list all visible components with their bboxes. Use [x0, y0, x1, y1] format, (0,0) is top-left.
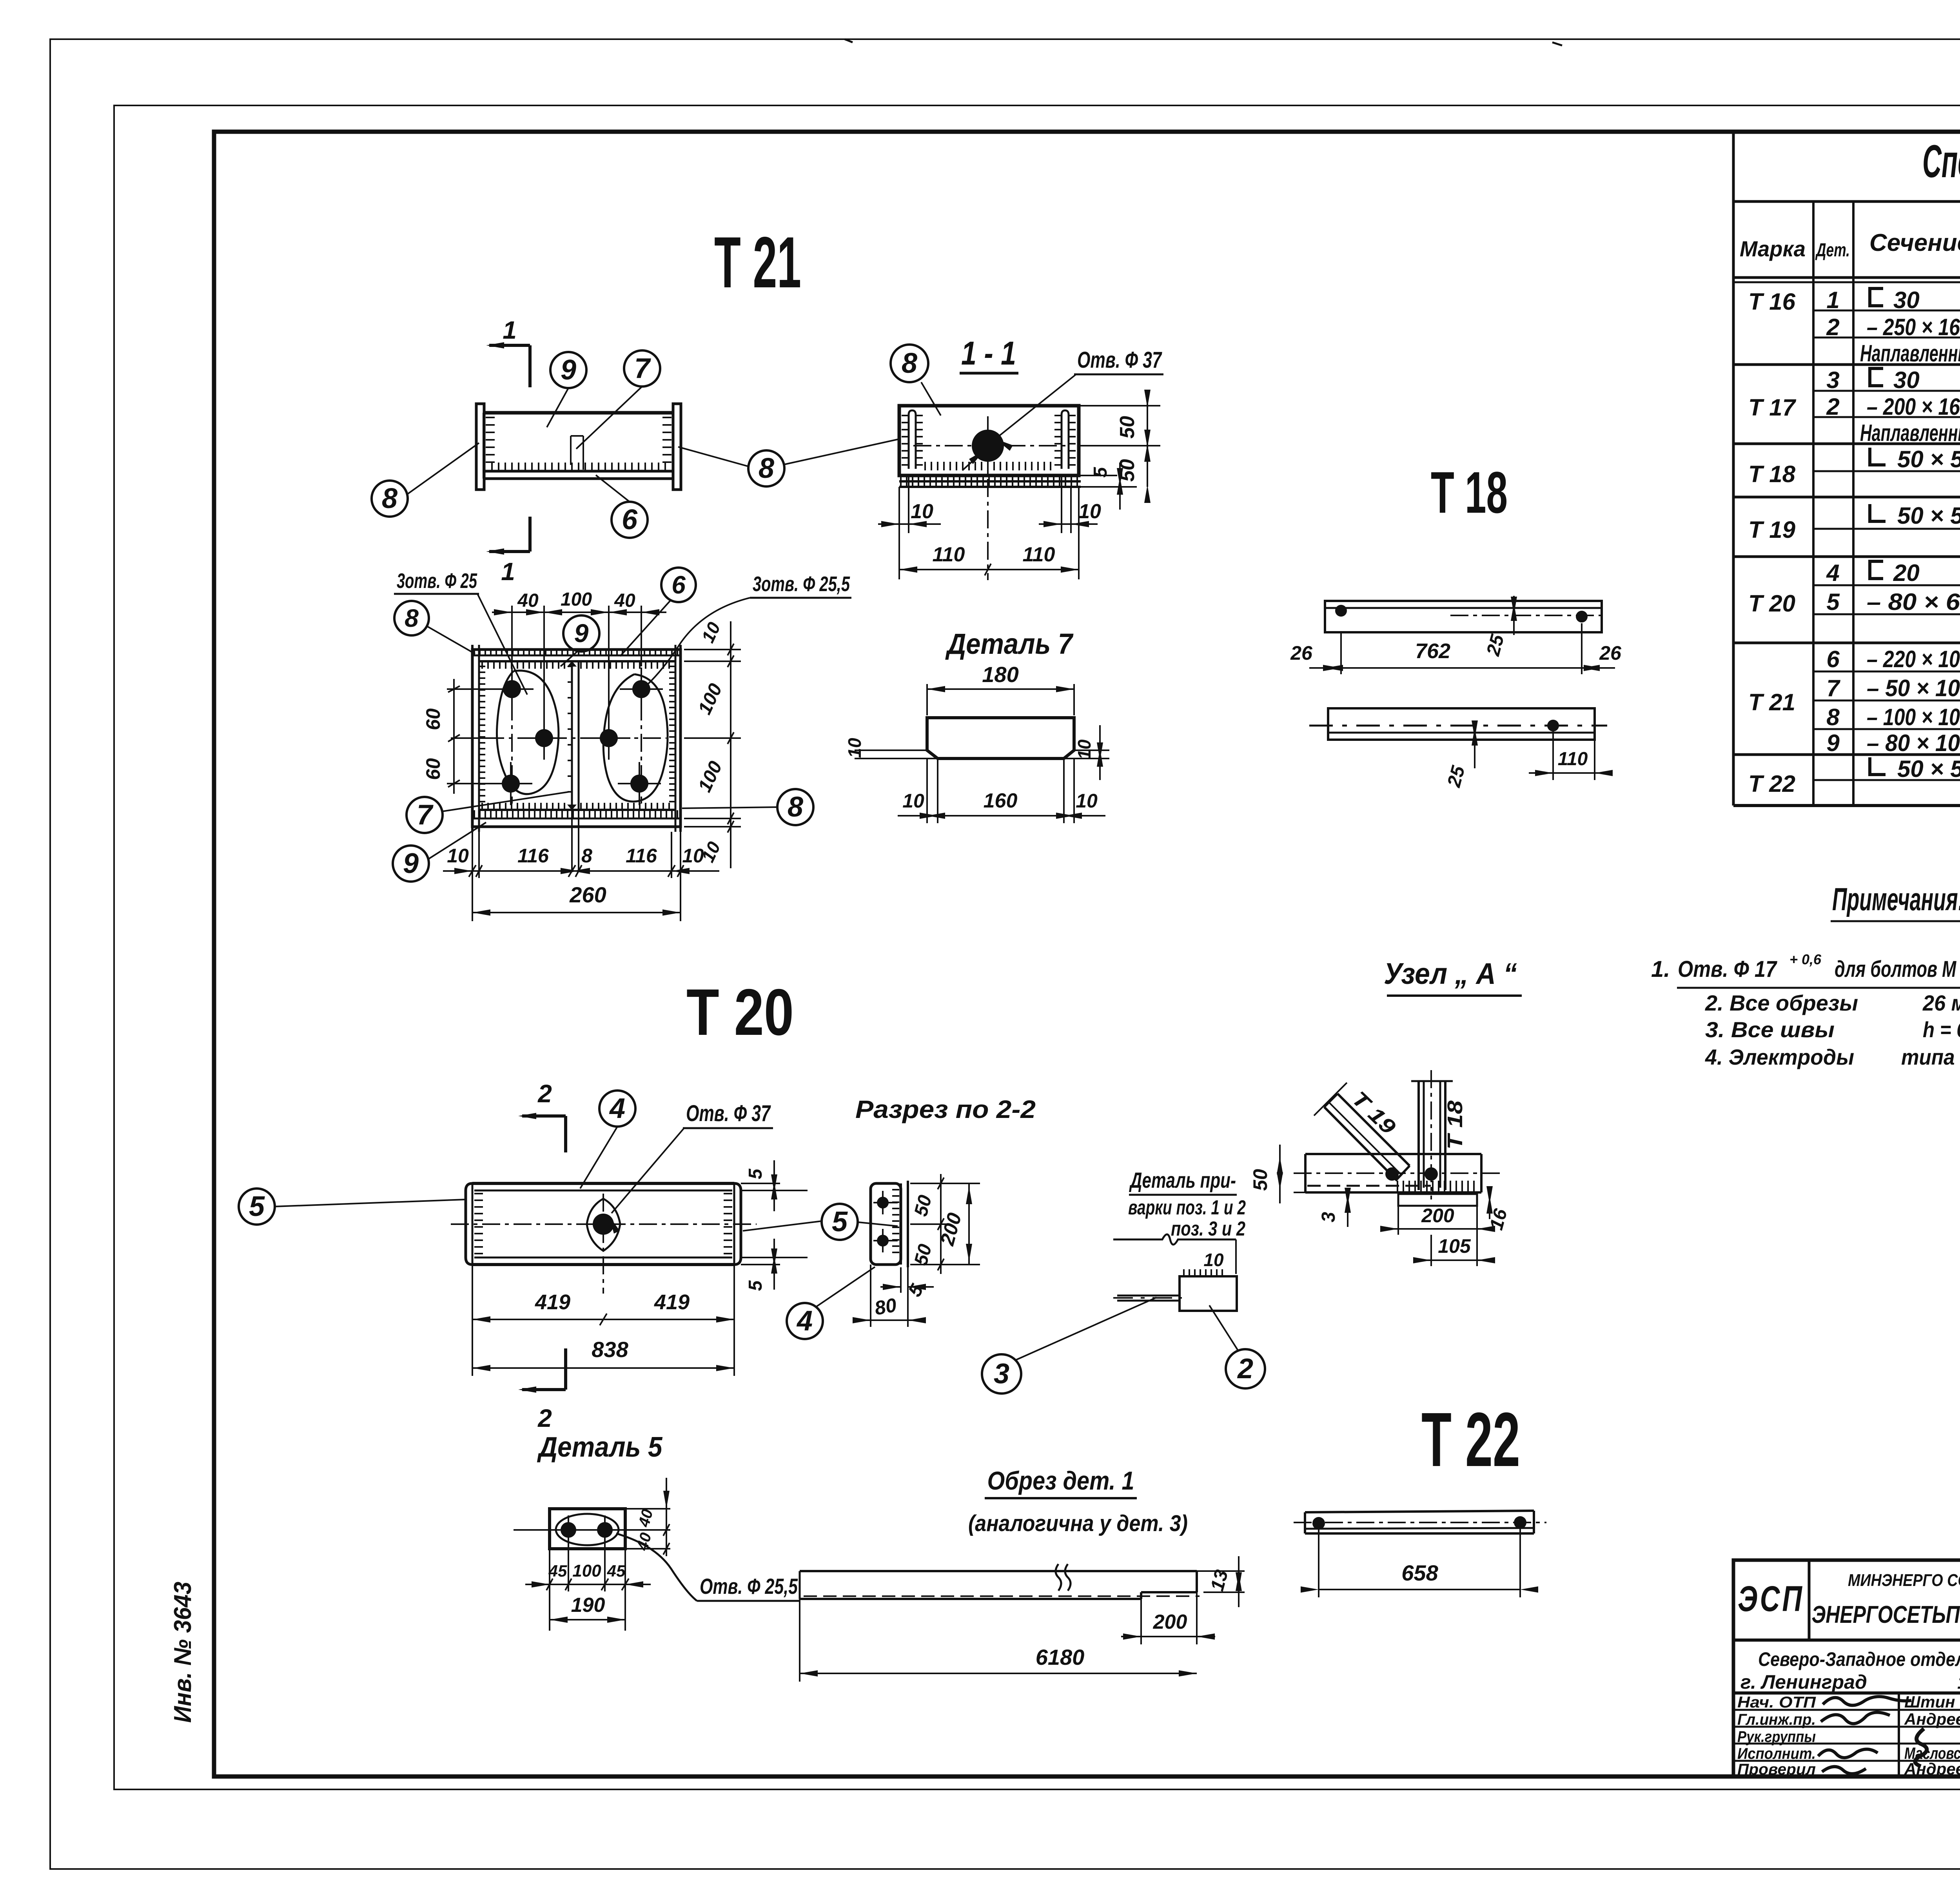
svg-text:– 250 × 16: – 250 × 16 [1867, 314, 1960, 340]
svg-text:110: 110 [933, 543, 965, 566]
scan speck top [845, 39, 853, 42]
T18 bar 1 [1325, 601, 1602, 632]
section mark 1 top [528, 345, 532, 387]
T20 section mark 2 top [564, 1116, 567, 1152]
svg-text:26: 26 [1290, 642, 1313, 664]
svg-text:160: 160 [984, 789, 1018, 812]
svg-text:– 220 × 10: – 220 × 10 [1867, 646, 1960, 672]
razrez bolts [877, 1197, 889, 1208]
uzel A weld hatch [1397, 1181, 1474, 1192]
signatures [1823, 1697, 1911, 1705]
svg-text:Деталь при-: Деталь при- [1129, 1168, 1236, 1192]
svg-text:45: 45 [548, 1562, 567, 1580]
svg-text:8: 8 [382, 483, 397, 514]
svg-text:2: 2 [1237, 1353, 1253, 1384]
svg-text:– 50 × 10: – 50 × 10 [1867, 675, 1960, 701]
razrez plate det5 [900, 1183, 902, 1265]
svg-text:200: 200 [1153, 1611, 1187, 1633]
svg-text:116: 116 [626, 845, 657, 867]
svg-text:Разрез по 2-2: Разрез по 2-2 [855, 1095, 1036, 1123]
hole F37 [972, 430, 1004, 462]
svg-text:9: 9 [1826, 730, 1840, 756]
callout 8 plan right [682, 807, 777, 808]
svg-text:Марка: Марка [1740, 236, 1806, 261]
svg-text:5: 5 [745, 1280, 766, 1291]
svg-text:Дет.: Дет. [1815, 240, 1850, 261]
T21 side view body [484, 411, 673, 415]
svg-text:Отв. Ф 37: Отв. Ф 37 [686, 1101, 771, 1126]
svg-text:8: 8 [759, 453, 774, 484]
callout 8 section [921, 382, 941, 416]
svg-text:762: 762 [1415, 639, 1450, 663]
svg-text:1: 1 [501, 557, 515, 586]
callout 9 plan top [561, 651, 578, 666]
svg-text:для болтов М 16 × 60: для болтов М 16 × 60 [1835, 956, 1960, 982]
svg-text:Штин: Штин [1904, 1693, 1955, 1711]
plan top dims 40 100 40 [511, 606, 513, 666]
svg-text:50: 50 [1116, 416, 1139, 439]
svg-text:Примечания:: Примечания: [1832, 882, 1960, 917]
svg-text:105: 105 [1438, 1235, 1471, 1257]
svg-text:– 80 × 6: – 80 × 6 [1867, 589, 1960, 615]
svg-text:5: 5 [832, 1206, 848, 1238]
svg-text:8: 8 [902, 348, 917, 379]
plan view outer [472, 650, 681, 827]
T18 bar 2 dims [1474, 721, 1475, 768]
svg-text:50 × 5: 50 × 5 [1897, 446, 1960, 472]
svg-text:Нач. ОТП: Нач. ОТП [1737, 1694, 1816, 1711]
callout 6 bottom [596, 475, 630, 502]
svg-text:9: 9 [403, 848, 419, 879]
svg-text:Спецификация: Спецификация [1922, 136, 1960, 187]
svg-text:8: 8 [405, 604, 419, 632]
detail 7 part [927, 718, 1074, 758]
svg-text:116: 116 [517, 845, 549, 867]
svg-text:110: 110 [1558, 749, 1588, 769]
T20 body [472, 1182, 734, 1185]
plan view top plate [472, 655, 681, 657]
svg-text:Гл.инж.пр.: Гл.инж.пр. [1737, 1711, 1816, 1728]
svg-text:типа Э 42 А: типа Э 42 А [1901, 1045, 1960, 1069]
T22 dims 658 [1318, 1529, 1319, 1597]
svg-text:Т 20: Т 20 [1748, 590, 1795, 617]
uzel A dims [1279, 1145, 1281, 1203]
T21 side view left end plate [476, 404, 484, 490]
svg-text:Отв. Ф 37: Отв. Ф 37 [1077, 347, 1162, 373]
detail 5 plate [550, 1509, 625, 1549]
obrez det1 dim 200 [1140, 1599, 1142, 1644]
svg-text:4: 4 [796, 1305, 813, 1337]
T18 bar 1 dims [1340, 632, 1342, 674]
svg-text:Т 20: Т 20 [686, 975, 794, 1049]
svg-text:50 × 5: 50 × 5 [1897, 756, 1960, 782]
svg-text:2: 2 [537, 1404, 552, 1432]
svg-text:6180: 6180 [1036, 1645, 1085, 1669]
section 1-1 box [899, 406, 1079, 475]
detail privarki callout 3 [1015, 1297, 1156, 1360]
spec table grid [1733, 200, 1960, 203]
svg-text:658: 658 [1401, 1560, 1438, 1585]
plan view bottom plate [479, 809, 675, 811]
svg-text:4: 4 [609, 1093, 625, 1124]
dims 110 110 [898, 533, 900, 579]
svg-text:2: 2 [1826, 394, 1839, 420]
svg-text:МИНЭНЕРГО СССР: МИНЭНЕРГО СССР [1848, 1571, 1960, 1590]
dims 50 50 5 right [1079, 405, 1160, 406]
svg-text:3: 3 [1826, 367, 1839, 393]
plan bolts [503, 680, 521, 698]
svg-text:– 100 × 10: – 100 × 10 [1867, 704, 1960, 730]
svg-text:Отв. Ф 25,5: Отв. Ф 25,5 [700, 1574, 798, 1599]
svg-text:Т 21: Т 21 [714, 222, 801, 303]
svg-text:ЭНЕРГОСЕТЬПРОЕКТ: ЭНЕРГОСЕТЬПРОЕКТ [1812, 1601, 1960, 1628]
svg-text:Сечение: Сечение [1869, 229, 1960, 256]
svg-text:Т 21: Т 21 [1748, 689, 1795, 715]
svg-text:10: 10 [911, 500, 933, 523]
svg-text:Деталь 5: Деталь 5 [537, 1432, 662, 1463]
T20 dims 5 top/bottom right [741, 1183, 780, 1184]
svg-text:Наплавленный: Наплавленный [1860, 420, 1960, 446]
svg-text:30: 30 [1893, 287, 1920, 313]
svg-text:419: 419 [654, 1290, 690, 1314]
svg-text:10: 10 [1074, 739, 1094, 760]
plan centerlines [486, 737, 666, 739]
svg-text:100: 100 [561, 589, 592, 610]
svg-text:2: 2 [1826, 314, 1839, 340]
plan bottom dims 10 116 8 116 10 [478, 832, 480, 878]
svg-text:260: 260 [569, 882, 606, 907]
uzel A vertical T18 [1417, 1081, 1420, 1190]
callout 9 plan bottom [428, 822, 486, 859]
svg-text:1: 1 [503, 316, 517, 344]
svg-text:Андреева: Андреева [1904, 1760, 1960, 1778]
svg-text:1: 1 [1826, 287, 1839, 313]
svg-text:– 200 × 16: – 200 × 16 [1867, 394, 1960, 420]
svg-text:Т 18: Т 18 [1443, 1101, 1467, 1150]
svg-text:3. Все швы: 3. Все швы [1705, 1017, 1835, 1042]
T20 section mark 2 bottom [564, 1348, 567, 1390]
svg-text:h = 6 мм: h = 6 мм [1923, 1017, 1960, 1042]
T20 callout 4 [580, 1127, 617, 1189]
svg-text:60: 60 [422, 758, 444, 780]
T20 callout 5 right shared [743, 1221, 822, 1231]
plan left dims 60 60 [447, 688, 502, 690]
detail privarki strip [1117, 1295, 1180, 1297]
svg-text:9: 9 [561, 354, 576, 386]
section 1-1 bottom plate [899, 480, 1081, 483]
svg-text:10: 10 [447, 845, 469, 867]
detail 7 dim 180 [926, 684, 928, 715]
svg-text:Северо-Западное отделение: Северо-Западное отделение [1758, 1648, 1960, 1670]
section mark 1 bottom [528, 517, 532, 552]
svg-text:– 80 × 10: – 80 × 10 [1867, 730, 1960, 756]
detail 5 dims 40 40 [625, 1508, 670, 1510]
svg-text:ЭСП: ЭСП [1738, 1579, 1804, 1619]
razrez dims 50 50 200 [910, 1183, 980, 1184]
T21 side view right end plate [673, 404, 681, 490]
detail 5 oval [556, 1514, 619, 1545]
svg-text:26 мм: 26 мм [1922, 991, 1960, 1015]
T20 right end cap [734, 1183, 741, 1265]
svg-text:Обрез дет. 1: Обрез дет. 1 [987, 1466, 1134, 1495]
svg-text:80: 80 [873, 1294, 898, 1319]
svg-text:3отв. Ф 25,5: 3отв. Ф 25,5 [753, 572, 850, 596]
svg-text:7: 7 [417, 799, 434, 831]
razrez dim 5 [900, 1267, 902, 1293]
svg-text:40: 40 [517, 590, 539, 611]
detail 7 side ext lines [855, 749, 927, 751]
obrez det1 dim 13 [1197, 1570, 1245, 1572]
uzel A diagonal T19 [1324, 1107, 1396, 1180]
svg-text:варки поз. 1 и 2: варки поз. 1 и 2 [1128, 1196, 1246, 1219]
callout 8 left [408, 443, 479, 494]
callout 9 side view [547, 388, 568, 427]
svg-text:838: 838 [592, 1337, 628, 1362]
svg-text:9: 9 [574, 619, 589, 648]
svg-text:1973 г.: 1973 г. [1957, 1672, 1960, 1693]
svg-text:Узел „ А “: Узел „ А “ [1384, 957, 1517, 991]
uzel A bottom plate [1398, 1194, 1477, 1206]
T20 left end cap [466, 1183, 472, 1265]
svg-text:Т 17: Т 17 [1748, 394, 1797, 421]
svg-text:6: 6 [671, 571, 686, 599]
plan view middle rib [571, 661, 573, 810]
callout 6 plan [620, 600, 671, 656]
svg-text:2: 2 [537, 1080, 552, 1108]
section 1-1 welds [902, 416, 908, 465]
svg-text:10: 10 [1076, 790, 1098, 812]
svg-text:Рук.группы: Рук.группы [1737, 1728, 1816, 1746]
svg-text:Т 22: Т 22 [1421, 1397, 1520, 1482]
svg-text:10: 10 [1078, 500, 1101, 523]
svg-text:7: 7 [634, 353, 651, 384]
svg-text:(аналогична у дет. 3): (аналогична у дет. 3) [968, 1511, 1188, 1536]
section 1-1 right slot [1062, 410, 1069, 469]
svg-text:4: 4 [1826, 560, 1839, 586]
svg-text:4. Электроды: 4. Электроды [1705, 1045, 1854, 1069]
svg-text:60: 60 [422, 708, 444, 730]
T22 bar [1305, 1511, 1534, 1512]
svg-text:7: 7 [1826, 675, 1840, 701]
plan hole group right egg [603, 674, 668, 802]
svg-text:поз. 3 и 2: поз. 3 и 2 [1171, 1218, 1245, 1240]
T21 side view welds [486, 417, 495, 462]
callout 8 middle shared [678, 447, 749, 466]
svg-text:Наплавленный: Наплавленный [1860, 340, 1960, 367]
obrez det1 bar [800, 1570, 1197, 1572]
svg-text:26: 26 [1599, 642, 1622, 664]
svg-text:5: 5 [745, 1168, 766, 1179]
svg-text:180: 180 [982, 662, 1018, 687]
detail 5 dims 45 100 45 190 [549, 1549, 550, 1631]
plan dim 260 [472, 832, 473, 921]
svg-text:200: 200 [1421, 1205, 1454, 1227]
svg-text:Проверил: Проверил [1737, 1761, 1816, 1778]
svg-text:Т 18: Т 18 [1431, 459, 1508, 525]
callout 8 plan top-left [427, 626, 475, 654]
detail privarki dim bracket [1113, 1234, 1236, 1245]
svg-text:5: 5 [249, 1191, 265, 1222]
obrez det1 break [1056, 1564, 1071, 1591]
T20 callout 5 left [274, 1199, 466, 1207]
svg-text:Т 18: Т 18 [1748, 461, 1796, 487]
plan view end plates [471, 645, 474, 832]
section 1-1 left slot [909, 410, 916, 469]
svg-text:Т 19: Т 19 [1748, 517, 1796, 543]
svg-text:+ 0,6: + 0,6 [1789, 951, 1822, 967]
svg-text:10: 10 [1203, 1250, 1224, 1270]
svg-text:190: 190 [571, 1594, 605, 1617]
callout 7 side view [576, 386, 642, 449]
svg-text:5: 5 [1090, 466, 1111, 477]
svg-text:Отв. Ф 17: Отв. Ф 17 [1678, 956, 1777, 982]
svg-text:6: 6 [622, 504, 638, 535]
razrez dim 80 [870, 1265, 871, 1327]
svg-text:419: 419 [535, 1290, 570, 1314]
detail privarki plate [1180, 1276, 1237, 1311]
thick inner frame [214, 132, 1960, 1776]
svg-text:8: 8 [581, 845, 592, 867]
T18 bar 2 [1328, 708, 1595, 740]
svg-text:8: 8 [788, 791, 803, 823]
svg-text:Инв. № 3643: Инв. № 3643 [169, 1582, 196, 1723]
svg-text:3: 3 [994, 1358, 1009, 1390]
plan hole group left egg [497, 671, 558, 794]
detail 5 holes [561, 1522, 576, 1538]
svg-text:8: 8 [1826, 704, 1840, 730]
svg-text:50 × 5: 50 × 5 [1897, 503, 1960, 529]
detail 7 hidden outline [571, 436, 583, 470]
T20 dims 419 419 838 [472, 1265, 473, 1376]
svg-text:10: 10 [902, 790, 924, 812]
razrez channel web [871, 1183, 901, 1265]
svg-text:Исполнит.: Исполнит. [1737, 1745, 1816, 1762]
plan view weld hatch cells [482, 662, 564, 669]
svg-text:1.: 1. [1651, 956, 1670, 982]
plan right dims 10 100 100 10 [684, 649, 741, 650]
svg-text:Деталь 7: Деталь 7 [945, 628, 1074, 660]
svg-text:3отв. Ф 25: 3отв. Ф 25 [397, 569, 477, 593]
detail 7 bottom dims [926, 758, 928, 823]
svg-text:Т 22: Т 22 [1748, 771, 1795, 797]
svg-text:10: 10 [682, 845, 704, 867]
svg-text:2. Все обрезы: 2. Все обрезы [1705, 991, 1858, 1015]
razrez welds [892, 1190, 899, 1252]
svg-text:40: 40 [614, 590, 635, 611]
svg-text:110: 110 [1023, 543, 1055, 566]
svg-text:г. Ленинград: г. Ленинград [1740, 1671, 1867, 1693]
svg-text:30: 30 [1893, 367, 1920, 393]
svg-text:1 - 1: 1 - 1 [961, 335, 1016, 372]
uzel A beam [1305, 1153, 1481, 1155]
obrez det1 dim 6180 [799, 1599, 800, 1682]
callout 7 plan [442, 792, 569, 811]
svg-text:10: 10 [844, 738, 865, 758]
T20 hole [587, 1199, 620, 1251]
svg-text:Т 16: Т 16 [1748, 289, 1796, 315]
dims 10 10 below [898, 487, 900, 533]
svg-text:3: 3 [1318, 1212, 1339, 1222]
svg-text:50: 50 [1249, 1169, 1271, 1191]
detail privarki callout 2 [1209, 1305, 1239, 1352]
svg-text:Андреева: Андреева [1904, 1710, 1960, 1728]
svg-text:6: 6 [1826, 646, 1840, 672]
svg-text:100: 100 [572, 1561, 601, 1580]
svg-text:45: 45 [607, 1562, 626, 1580]
razrez callout 4 [815, 1267, 875, 1307]
title block frame [1733, 1560, 1960, 1776]
svg-text:5: 5 [1826, 589, 1840, 615]
svg-text:20: 20 [1893, 560, 1920, 586]
T20 welds [474, 1194, 483, 1254]
